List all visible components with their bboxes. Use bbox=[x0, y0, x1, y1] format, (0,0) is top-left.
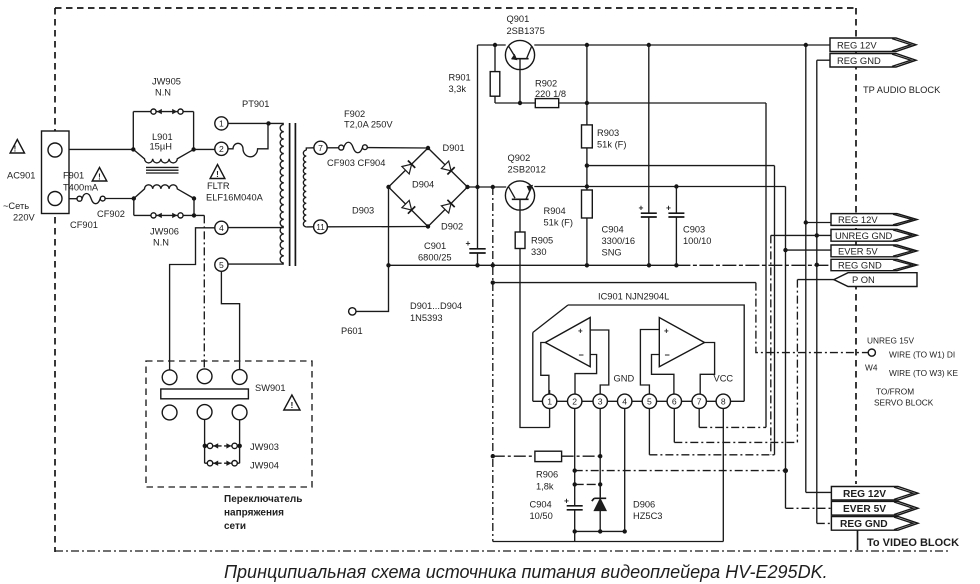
wire: AC901 bottom to F901 bbox=[69, 198, 77, 200]
svg-text:3: 3 bbox=[598, 397, 603, 407]
wire: UNREG row to right corner bbox=[493, 282, 756, 284]
wire: bridge plus rail (vertical) bbox=[477, 45, 479, 249]
wire: ground row bbox=[389, 264, 677, 266]
svg-text:51k (F): 51k (F) bbox=[544, 218, 573, 228]
connector arrow REG GND (bottom) bbox=[831, 517, 918, 531]
wire: pin7 down and row bbox=[698, 408, 700, 427]
jumper JW903 bbox=[205, 420, 240, 446]
resistor R904 bbox=[586, 187, 588, 266]
op-amp U1B (right, points right) bbox=[659, 318, 704, 367]
svg-text:R905: R905 bbox=[531, 236, 553, 246]
svg-text:2SB2012: 2SB2012 bbox=[508, 165, 546, 175]
wire: U1A plus input to pin3 bbox=[590, 330, 609, 394]
node: ground junctions bbox=[386, 263, 819, 268]
svg-text:D903: D903 bbox=[352, 206, 374, 216]
wire: pin5 down and row bbox=[648, 408, 650, 454]
switch SW901 dashed box bbox=[146, 361, 312, 487]
svg-text:WIRE (TO W1) DI: WIRE (TO W1) DI bbox=[889, 350, 955, 360]
wire: bottom REG GND lead bbox=[817, 522, 832, 524]
svg-text:SW901: SW901 bbox=[255, 383, 286, 393]
switch SW901 bottom contacts bbox=[162, 405, 177, 420]
wire: pin3 down bbox=[599, 408, 601, 497]
svg-text:!: ! bbox=[290, 400, 293, 410]
svg-text:AC901: AC901 bbox=[7, 171, 35, 181]
svg-text:2SB1375: 2SB1375 bbox=[507, 26, 545, 36]
svg-text:220V: 220V bbox=[13, 213, 36, 223]
wire: F902 to bridge AC top bbox=[367, 147, 428, 149]
wire: pin5 to primary bottom bbox=[228, 263, 284, 265]
wire: pin4 down bbox=[624, 408, 626, 531]
IC901 pin 5 bbox=[642, 394, 656, 408]
wire: Q901 emitter row (top rail) bbox=[478, 44, 506, 46]
connector arrow P.ON (input) bbox=[834, 273, 917, 287]
svg-text:1N5393: 1N5393 bbox=[410, 313, 443, 323]
svg-text:11: 11 bbox=[316, 223, 325, 232]
resistor R903 bbox=[586, 45, 588, 187]
svg-text:сети: сети bbox=[224, 521, 246, 532]
svg-text:C904: C904 bbox=[530, 500, 552, 510]
svg-text:VCC: VCC bbox=[714, 374, 734, 384]
wire: JW905 left leg bbox=[132, 112, 134, 150]
svg-text:+: + bbox=[578, 327, 583, 336]
wire: bus V4 (EVER5V sense) bbox=[785, 187, 787, 509]
svg-text:UNREG 15V: UNREG 15V bbox=[867, 336, 914, 346]
svg-text:T2,0A 250V: T2,0A 250V bbox=[344, 120, 393, 130]
border top dashed bbox=[55, 7, 856, 9]
wire: pin2 down bbox=[574, 408, 576, 484]
svg-text:−: − bbox=[579, 350, 584, 360]
svg-text:~Сеть: ~Сеть bbox=[3, 201, 29, 211]
op-amp U1A (left, points left) bbox=[545, 318, 590, 367]
wire: bus V2 (UNREG GND) bbox=[770, 235, 772, 454]
capacitor C901 bbox=[469, 249, 485, 253]
IC901 pin 6 bbox=[667, 394, 681, 408]
wire: bottom REG12V lead bbox=[806, 491, 832, 493]
wire: R903 bottom row bbox=[587, 165, 775, 167]
svg-text:R904: R904 bbox=[544, 206, 566, 216]
svg-text:REG 12V: REG 12V bbox=[843, 489, 886, 500]
transistor Q902 bbox=[505, 181, 534, 210]
svg-text:+: + bbox=[666, 203, 671, 213]
svg-text:T400mA: T400mA bbox=[63, 183, 99, 193]
svg-text:REG GND: REG GND bbox=[840, 519, 888, 530]
node: bridge corners bbox=[386, 146, 469, 229]
wire: bus V3 (R903 divider) bbox=[774, 166, 776, 455]
transformer PT901 primary winding bbox=[280, 124, 284, 263]
svg-text:R906: R906 bbox=[536, 470, 558, 480]
svg-text:D904: D904 bbox=[412, 180, 434, 190]
svg-text:Q901: Q901 bbox=[507, 14, 530, 24]
switch SW901 slider bar bbox=[161, 389, 249, 399]
diode D902 (bottom-right edge) bbox=[441, 203, 451, 213]
wire: Q901 collector to REG12V bbox=[534, 44, 831, 46]
transformer PT901 core bbox=[289, 123, 291, 266]
wire: mid EVER5V lead bbox=[786, 249, 832, 251]
connector arrow REG 12V (mid) bbox=[831, 214, 917, 226]
svg-text:6800/25: 6800/25 bbox=[418, 253, 452, 263]
wire: bridge minus to ground row bbox=[388, 187, 390, 265]
wire: bus V7 (REG GND) bbox=[816, 60, 818, 523]
svg-text:CF903 CF904: CF903 CF904 bbox=[327, 158, 385, 168]
svg-text:4: 4 bbox=[219, 223, 224, 233]
fuse F901 bbox=[77, 196, 82, 201]
border bottom dash-dot bbox=[55, 550, 948, 552]
svg-text:+: + bbox=[639, 203, 644, 213]
svg-text:7: 7 bbox=[318, 143, 323, 153]
svg-text:ELF16M040A: ELF16M040A bbox=[206, 193, 264, 203]
svg-text:N.N: N.N bbox=[155, 88, 171, 98]
svg-text:P ON: P ON bbox=[852, 274, 875, 285]
IC901 pin 1 bbox=[542, 394, 556, 408]
warning triangle near AC901 bbox=[10, 140, 24, 154]
resistor R902 bbox=[535, 99, 558, 108]
diode D904 (top-left edge) bbox=[402, 164, 412, 174]
svg-text:JW906: JW906 bbox=[150, 227, 179, 237]
svg-text:TO/FROM: TO/FROM bbox=[876, 387, 914, 397]
transformer pin 7 bbox=[314, 141, 327, 154]
svg-text:1: 1 bbox=[547, 397, 552, 407]
connector arrow REG GND (top) bbox=[830, 54, 916, 68]
jumper JW906 bbox=[134, 199, 194, 216]
svg-text:220 1/8: 220 1/8 bbox=[535, 89, 566, 99]
connector arrow REG GND (mid) bbox=[831, 259, 917, 270]
transformer pin 5 bbox=[215, 258, 228, 271]
svg-text:−: − bbox=[665, 350, 670, 360]
transformer PT901 secondary winding bbox=[303, 150, 306, 227]
connector arrow REG 12V (top) bbox=[830, 38, 916, 52]
svg-text:REG GND: REG GND bbox=[837, 55, 881, 66]
svg-text:N.N: N.N bbox=[153, 238, 169, 248]
svg-text:HZ5C3: HZ5C3 bbox=[633, 511, 662, 521]
svg-text:3,3k: 3,3k bbox=[449, 84, 467, 94]
svg-text:TP AUDIO BLOCK: TP AUDIO BLOCK bbox=[863, 85, 941, 95]
connector arrow EVER 5V (bottom) bbox=[831, 501, 918, 515]
svg-text:D901: D901 bbox=[443, 143, 465, 153]
svg-text:C903: C903 bbox=[683, 225, 705, 235]
wire: bus V1 (Q901 base net) bbox=[765, 103, 767, 427]
bridge rectifier D901-D904 diamond bbox=[389, 148, 468, 227]
svg-text:CF902: CF902 bbox=[97, 209, 125, 219]
wire: top REG GND arrow lead bbox=[817, 59, 830, 61]
wire: Q902 collector row to EVER5V bus bbox=[534, 186, 785, 188]
wire: video block stem bbox=[857, 530, 859, 550]
svg-text:напряжения: напряжения bbox=[224, 508, 284, 519]
IC901 pin 3 bbox=[593, 394, 607, 408]
svg-text:GND: GND bbox=[614, 374, 635, 384]
svg-text:F901: F901 bbox=[63, 171, 84, 181]
wire: secondary bottom to pin11 bbox=[306, 226, 314, 228]
jumper JW905 bbox=[133, 111, 193, 113]
switch SW901 top contacts bbox=[162, 370, 177, 385]
resistor R905 bbox=[515, 232, 525, 249]
svg-text:5: 5 bbox=[219, 260, 224, 270]
svg-text:L901: L901 bbox=[152, 132, 173, 142]
svg-text:Q902: Q902 bbox=[508, 153, 531, 163]
transformer pin 2 bbox=[215, 142, 228, 155]
svg-text:R901: R901 bbox=[449, 73, 471, 83]
resistor R906 bbox=[493, 455, 600, 457]
svg-text:8: 8 bbox=[721, 397, 726, 407]
wire: pin2 loop to primary top node bbox=[228, 123, 268, 156]
svg-text:JW905: JW905 bbox=[152, 77, 181, 87]
wire: bottom VCC return row bbox=[493, 531, 724, 541]
svg-text:REG 12V: REG 12V bbox=[837, 39, 877, 50]
wire: bridge plus to Q902 emitter bbox=[468, 186, 507, 188]
wire: mid REG12V lead bbox=[806, 222, 831, 224]
connector P601 bbox=[356, 265, 389, 311]
connector AC901 bbox=[42, 131, 70, 214]
svg-text:CF901: CF901 bbox=[70, 220, 98, 230]
SW901 feed wire from pin5 bbox=[221, 271, 239, 370]
svg-text:REG GND: REG GND bbox=[838, 260, 882, 271]
wire: U1B output to pin7 bbox=[700, 343, 714, 395]
transformer pin 4 bbox=[215, 221, 228, 234]
svg-text:R903: R903 bbox=[597, 128, 619, 138]
IC901 pin 7 bbox=[692, 394, 706, 408]
wire: U1B plus input to pin5 bbox=[640, 330, 659, 395]
svg-text:W4: W4 bbox=[865, 363, 878, 373]
wire: zener bottom row bbox=[575, 530, 625, 532]
wire: UNREG 15V drop and row to servo bbox=[756, 283, 868, 353]
border left dashed bbox=[54, 8, 56, 552]
resistor R901 bbox=[494, 45, 496, 103]
node: plus rail junctions bbox=[475, 185, 495, 189]
svg-text:SERVO BLOCK: SERVO BLOCK bbox=[874, 398, 934, 408]
svg-text:!: ! bbox=[14, 145, 17, 154]
wire: pin1 stub bbox=[549, 390, 551, 428]
jumper JW904 bbox=[205, 446, 240, 463]
svg-text:6: 6 bbox=[672, 397, 677, 407]
wire: UNREG rail from Q902 emitter down bbox=[492, 187, 494, 542]
svg-text:15µH: 15µH bbox=[150, 142, 172, 152]
svg-text:330: 330 bbox=[531, 247, 547, 257]
svg-text:FLTR: FLTR bbox=[207, 181, 230, 191]
connector arrow UNREG GND (mid) bbox=[831, 229, 917, 241]
svg-text:SNG: SNG bbox=[602, 248, 622, 258]
IC901 pin 4 bbox=[618, 394, 632, 408]
svg-text:D906: D906 bbox=[633, 500, 655, 510]
svg-text:IC901 NJN2904L: IC901 NJN2904L bbox=[598, 292, 669, 302]
svg-text:3300/16: 3300/16 bbox=[602, 236, 636, 246]
svg-text:2: 2 bbox=[572, 397, 577, 407]
capacitor C904 (3300/16) bbox=[648, 45, 650, 265]
IC901 outline box bbox=[533, 305, 744, 401]
svg-text:51k (F): 51k (F) bbox=[597, 140, 626, 150]
svg-text:Принципиальная схема источника: Принципиальная схема источника питания в… bbox=[224, 562, 828, 582]
connector arrow EVER 5V (mid) bbox=[831, 245, 917, 257]
svg-text:C901: C901 bbox=[424, 241, 446, 251]
svg-text:PT901: PT901 bbox=[242, 99, 269, 109]
wire: pin11 to bridge AC bottom bbox=[327, 226, 428, 228]
IC901 pin 8 bbox=[716, 394, 730, 408]
fuse F902 bbox=[327, 147, 339, 149]
wire: U1B minus input to pin6 bbox=[652, 355, 674, 395]
svg-text:5: 5 bbox=[647, 397, 652, 407]
inductor L901 (common-mode choke) bbox=[133, 149, 193, 163]
svg-text:To VIDEO BLOCK: To VIDEO BLOCK bbox=[867, 537, 959, 549]
svg-text:7: 7 bbox=[697, 397, 702, 407]
svg-text:EVER 5V: EVER 5V bbox=[838, 245, 878, 256]
wire: P.ON lead bbox=[797, 279, 834, 281]
svg-text:!: ! bbox=[216, 170, 219, 179]
warning triangle FLTR bbox=[210, 165, 225, 179]
wire: Q901 base row bbox=[495, 102, 766, 104]
svg-text:P601: P601 bbox=[341, 326, 363, 336]
svg-text:UNREG GND: UNREG GND bbox=[835, 230, 893, 241]
wire: pin2 sense row bbox=[575, 470, 786, 472]
wire: pin1 to primary top bbox=[228, 122, 284, 125]
SW901 feed wire from pin4 bbox=[170, 228, 215, 370]
border right dashed bbox=[855, 8, 857, 484]
svg-text:+: + bbox=[664, 327, 669, 336]
wire: pin6 down and row bbox=[673, 408, 675, 442]
svg-text:4: 4 bbox=[622, 397, 627, 407]
transformer pin 11 bbox=[314, 220, 328, 234]
svg-text:Переключатель: Переключатель bbox=[224, 494, 302, 505]
wire: pin8 down bbox=[722, 408, 724, 541]
wire: bottom EVER5V lead bbox=[786, 507, 832, 509]
SW901 feed wire from JW906 bbox=[203, 215, 205, 370]
transistor Q901 bbox=[505, 40, 534, 69]
node: L901 terminals bbox=[131, 147, 196, 201]
capacitor C904 (10/50) bbox=[574, 484, 576, 531]
svg-text:D902: D902 bbox=[441, 222, 463, 232]
svg-text:F902: F902 bbox=[344, 109, 365, 119]
node: top rail junctions bbox=[493, 43, 808, 47]
svg-text:REG 12V: REG 12V bbox=[838, 214, 878, 225]
svg-text:2: 2 bbox=[219, 144, 224, 154]
zener diode D906 bbox=[599, 484, 601, 531]
wire: JW905 right leg bbox=[193, 112, 195, 150]
connector arrow REG 12V (bottom) bbox=[831, 487, 918, 501]
svg-text:R902: R902 bbox=[535, 79, 557, 89]
wire: bus V5 (P.ON) bbox=[796, 280, 798, 443]
svg-text:+: + bbox=[466, 238, 471, 248]
diode D903 (bottom-left edge) bbox=[402, 200, 412, 210]
svg-text:C904: C904 bbox=[602, 225, 624, 235]
diode D901 (top-right edge) bbox=[441, 161, 451, 171]
svg-text:+: + bbox=[564, 496, 569, 506]
svg-text:JW904: JW904 bbox=[250, 461, 279, 471]
svg-text:!: ! bbox=[98, 173, 101, 182]
svg-text:1,8k: 1,8k bbox=[536, 482, 554, 492]
wire: AC901 top to L901 bbox=[69, 148, 133, 150]
wire: bus V6 (REG12V) bbox=[805, 45, 807, 492]
svg-text:EVER 5V: EVER 5V bbox=[843, 504, 886, 515]
wire: zener row bbox=[575, 483, 601, 485]
wire: mid UNREG GND lead bbox=[771, 234, 831, 236]
warning triangle near F901 bbox=[92, 168, 107, 182]
wire: pin4 tap to primary bbox=[228, 227, 284, 229]
wire: U1A minus input to pin2 bbox=[575, 355, 597, 395]
wire: L901 to pin2 bbox=[194, 148, 215, 150]
transformer pin 1 bbox=[215, 117, 228, 130]
capacitor C903 (100/10) bbox=[675, 187, 677, 266]
svg-text:JW903: JW903 bbox=[250, 442, 279, 452]
IC901 pin 2 bbox=[568, 394, 582, 408]
svg-text:10/50: 10/50 bbox=[530, 511, 553, 521]
wire: secondary top to pin7 bbox=[306, 148, 314, 150]
svg-text:WIRE (TO W3) KE: WIRE (TO W3) KE bbox=[889, 368, 958, 378]
warning triangle SW901 bbox=[284, 395, 300, 410]
svg-text:100/10: 100/10 bbox=[683, 236, 711, 246]
svg-text:1: 1 bbox=[219, 119, 224, 129]
wire: U1A output to pin1 bbox=[541, 343, 549, 395]
svg-text:D901...D904: D901...D904 bbox=[410, 301, 462, 311]
